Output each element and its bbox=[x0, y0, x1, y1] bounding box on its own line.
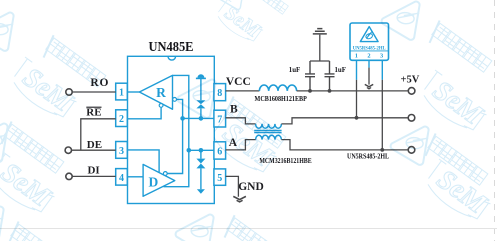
terminal DE bbox=[65, 147, 71, 153]
op-amp R receiver triangle bbox=[139, 75, 172, 109]
svg-text:MCB1608H121EBP: MCB1608H121EBP bbox=[255, 95, 308, 103]
wire pin4 to D input bbox=[128, 176, 144, 178]
TVS U2 pin2 lead bbox=[368, 60, 370, 67]
wire DI to pin4 bbox=[72, 175, 115, 177]
wire DE to pin3 bbox=[72, 149, 116, 151]
wire R inverting bubble to node B bbox=[167, 99, 182, 173]
capacitor C1 1uF bbox=[305, 61, 315, 91]
pin 2 bbox=[116, 110, 128, 127]
pin 8 bbox=[214, 84, 226, 101]
ground GND (chevron) bbox=[233, 196, 246, 202]
wire pin7 B to choke bbox=[226, 118, 256, 124]
watermark tile E (bottom-center) bbox=[221, 215, 289, 241]
svg-text:8: 8 bbox=[217, 88, 222, 99]
inverted output bubble on D upper slant bbox=[163, 172, 167, 176]
wire pin3 to D enable bbox=[128, 150, 160, 173]
svg-text:1uF: 1uF bbox=[334, 65, 346, 74]
svg-text:3: 3 bbox=[380, 52, 383, 59]
diode pair D1 (VCC to B) bbox=[196, 100, 205, 108]
internal VCC arrow symbol bbox=[196, 74, 206, 78]
wire choke lower to A terminal bbox=[281, 140, 408, 150]
inverting input bubble on R base bbox=[173, 98, 177, 102]
terminal DI bbox=[66, 173, 72, 179]
svg-text:4: 4 bbox=[119, 173, 124, 184]
wire pin8 VCC to inductor bbox=[226, 90, 260, 92]
svg-text:UN5RS485-2HL: UN5RS485-2HL bbox=[347, 153, 389, 161]
watermark tile H (bottom-left) bbox=[5, 221, 73, 241]
pin 4 bbox=[116, 169, 128, 186]
svg-text:3: 3 bbox=[119, 146, 124, 157]
wire internal node B line to pin7 bbox=[183, 117, 214, 119]
watermark tile G (top-center) bbox=[241, 0, 290, 19]
svg-text:+5V: +5V bbox=[400, 75, 419, 86]
terminal RO bbox=[66, 89, 72, 95]
wire pin6 A to choke bbox=[226, 140, 256, 150]
ground (earth, above caps) bbox=[313, 29, 327, 34]
wire diode pair to GND arrow bbox=[200, 168, 202, 189]
TVS U2 pin3 lead bbox=[381, 60, 383, 80]
svg-text:RE: RE bbox=[86, 106, 101, 118]
enable bubble on R lower slant bbox=[159, 104, 163, 108]
diode pair D2 (A to GND) bbox=[196, 159, 205, 169]
op-amp U1 chip body UN485E bbox=[128, 56, 215, 203]
junction C2/+5V rail bbox=[328, 89, 332, 93]
wire pin1 to receiver output bbox=[128, 91, 140, 93]
svg-text:1: 1 bbox=[355, 52, 358, 59]
svg-text:GND: GND bbox=[238, 181, 264, 193]
watermark tile C (left-middle) bbox=[0, 121, 65, 179]
faint page rule near bottom bbox=[0, 228, 497, 229]
svg-text:2: 2 bbox=[367, 52, 370, 59]
node A junction dot (ESD) bbox=[199, 148, 204, 153]
watermark tile B (top-right) bbox=[426, 20, 494, 78]
wire internal node A line to pin6 bbox=[189, 149, 214, 151]
wire cap top rail bbox=[310, 35, 330, 61]
watermark tile F (right-middle) bbox=[422, 133, 490, 191]
wire R top input to node A bbox=[164, 75, 189, 186]
node B junction dot (R/D bubbles) bbox=[180, 116, 185, 121]
svg-text:DI: DI bbox=[87, 165, 99, 177]
ground (TVS pin2 chevron) bbox=[365, 84, 373, 88]
junction TVS pin3 / node A bbox=[380, 148, 384, 152]
pin 5 bbox=[214, 169, 226, 185]
svg-text:1uF: 1uF bbox=[289, 65, 301, 74]
terminal A bbox=[408, 147, 415, 154]
svg-text:UN485E: UN485E bbox=[149, 40, 194, 55]
junction C1/+5V rail bbox=[308, 89, 312, 93]
svg-text:5: 5 bbox=[217, 173, 222, 184]
wire choke upper to B terminal bbox=[281, 118, 408, 124]
watermark tile A (top-left) bbox=[40, 35, 108, 93]
choke T1 lower winding bbox=[256, 135, 282, 139]
wire pin5 to GND bbox=[226, 176, 239, 196]
svg-text:R: R bbox=[156, 85, 166, 100]
choke T1 upper winding bbox=[256, 124, 282, 128]
pin 1 bbox=[116, 83, 128, 100]
wire inductor to +5V terminal bbox=[297, 90, 409, 92]
wire VCC arrow to ESD diode pair bbox=[200, 79, 202, 100]
op-amp D driver triangle bbox=[143, 164, 175, 196]
terminal +5V bbox=[408, 88, 415, 95]
node A junction dot (R/D line) bbox=[187, 148, 192, 153]
terminal B bbox=[408, 115, 415, 122]
wire node A to diode pair D2 bbox=[200, 150, 202, 158]
internal GND arrow bbox=[197, 189, 205, 194]
junction TVS pin1 / node B bbox=[355, 116, 359, 120]
svg-text:D: D bbox=[149, 174, 159, 189]
inductor L1 bbox=[259, 85, 296, 91]
svg-text:VCC: VCC bbox=[226, 76, 251, 88]
TVS U2 box UN5RS485-2HL bbox=[350, 23, 389, 60]
wire diode pair to node B bbox=[200, 108, 202, 118]
faint dashed rule at right edge bbox=[494, 0, 496, 241]
node B junction dot (ESD) bbox=[199, 116, 204, 121]
svg-text:2: 2 bbox=[119, 114, 124, 125]
pin 6 bbox=[214, 142, 226, 159]
label RE with overline bbox=[86, 106, 101, 118]
wire RE to pin2 bbox=[81, 119, 116, 150]
pin 7 bbox=[214, 110, 226, 127]
pin 3 bbox=[116, 142, 128, 159]
svg-text:DE: DE bbox=[87, 139, 102, 151]
TVS U2 pin1 lead bbox=[356, 60, 358, 80]
watermark tile D (center) bbox=[220, 96, 288, 154]
choke core lines bbox=[254, 130, 281, 132]
wire RO to pin1 bbox=[72, 91, 115, 93]
svg-text:1: 1 bbox=[119, 88, 124, 99]
wire pin2 to R enable bubble bbox=[128, 107, 162, 119]
capacitor C2 1uF bbox=[325, 61, 335, 91]
